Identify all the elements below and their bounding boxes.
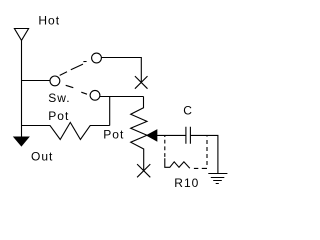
- resistor horizontal pot: [22, 122, 110, 139]
- wire junction down to pot: [109, 97, 111, 126]
- wire capacitor to ground: [190, 135, 218, 173]
- out terminal arrow: [14, 137, 29, 146]
- svg-text:Sw.: Sw.: [48, 91, 70, 105]
- switch linkage dashed to lower throw: [66, 85, 87, 94]
- dashed box right edge: [206, 135, 208, 136]
- svg-text:Pot: Pot: [103, 128, 124, 142]
- switch upper throw contact: [92, 53, 102, 63]
- hot terminal triangle: [14, 29, 28, 41]
- svg-text:Out: Out: [31, 149, 53, 163]
- resistor R10: [165, 158, 190, 168]
- svg-text:R10: R10: [174, 176, 199, 190]
- wire wiper to capacitor: [157, 134, 186, 136]
- ground symbol: [208, 174, 227, 184]
- resistor vertical pot: [131, 97, 147, 172]
- wire upper throw to X: [101, 58, 141, 83]
- capacitor C plates: [186, 127, 191, 144]
- no-connect X upper: [135, 76, 148, 89]
- pot wiper arrow: [147, 130, 157, 141]
- dashed box bottom edge: [194, 167, 207, 169]
- switch lower throw contact: [90, 90, 100, 100]
- svg-text:C: C: [183, 104, 193, 118]
- no-connect X lower: [137, 164, 150, 177]
- switch linkage dashed to upper throw: [60, 62, 87, 76]
- wire to switch pole: [22, 80, 51, 82]
- wire lower throw across: [100, 96, 144, 98]
- svg-text:Hot: Hot: [38, 14, 60, 28]
- switch pole contact: [50, 76, 60, 86]
- svg-text:Pot: Pot: [48, 109, 69, 123]
- wire left vertical (Hot to Out): [21, 40, 23, 137]
- dashed box left edge: [164, 135, 166, 137]
